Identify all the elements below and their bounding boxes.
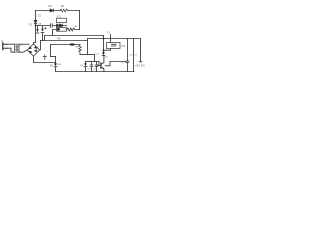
plus sign — [44, 27, 46, 29]
wire mid rail y25.5 — [36, 25, 67, 27]
wire C3 down — [42, 33, 44, 41]
svg-text:D3: D3 — [80, 65, 84, 67]
resistor R1 zigzag — [60, 9, 68, 12]
resistor R2 zigzag — [66, 28, 80, 31]
capacitor C4 branch — [90, 62, 93, 72]
test point TP1 tick — [110, 35, 112, 39]
wire x103.5 drop — [103, 36, 105, 51]
svg-text:C3: C3 — [88, 69, 92, 71]
ground rail y71 — [56, 71, 135, 73]
output terminal — [139, 39, 142, 62]
wire branch bus y61 — [86, 61, 100, 63]
wire T1 secondary top — [18, 43, 29, 45]
wire x87.5 drop — [87, 39, 89, 55]
wire T1 secondary bottom — [18, 50, 26, 52]
wire box top pin — [110, 39, 112, 43]
diode D4 — [60, 24, 63, 27]
svg-text:C6: C6 — [130, 54, 134, 56]
fuse F1 inline dash — [70, 43, 75, 45]
wire right drop x79 — [79, 11, 81, 30]
diode D2 — [34, 20, 37, 23]
transformer T1 — [14, 44, 15, 52]
wire x35 to junction — [35, 24, 37, 43]
wire left drop x35 to node — [35, 18, 37, 20]
wire top rail y10 — [36, 10, 80, 12]
svg-text:R1: R1 — [61, 4, 65, 8]
svg-text:D7: D7 — [97, 54, 101, 56]
connector J1 — [2, 43, 4, 50]
svg-text:S1: S1 — [38, 14, 42, 18]
wire drop to bridge right — [40, 41, 42, 50]
svg-text:s: s — [47, 51, 49, 53]
capacitor C3 arrow — [42, 26, 44, 29]
svg-text:IC1: IC1 — [57, 15, 62, 19]
wire base link — [97, 62, 100, 66]
wire drop x50 — [50, 45, 52, 57]
diode D5 on x57 — [55, 57, 57, 64]
capacitor C2 arrow — [37, 26, 39, 29]
capacitor C1 inline — [51, 24, 53, 27]
crystal X1 box — [107, 43, 121, 49]
wire J1 bottom jog — [7, 48, 15, 52]
wire bus y40 — [41, 40, 88, 42]
svg-text:R6: R6 — [57, 36, 61, 40]
zener D6 branch — [85, 62, 87, 64]
svg-text:+5V DC: +5V DC — [135, 64, 145, 68]
wire drop x44 — [44, 36, 46, 41]
bridge rectifier B1 — [27, 44, 39, 56]
node junction x35 y25.5 — [35, 25, 37, 27]
capacitor C6 column — [126, 39, 129, 72]
IC U2 box — [57, 27, 67, 31]
wire bus y35.5 — [45, 35, 104, 37]
svg-text:R2: R2 — [75, 26, 79, 28]
wire gnd bus y62 — [34, 62, 56, 64]
svg-text:5V6: 5V6 — [57, 64, 62, 66]
svg-text:Q1: Q1 — [105, 56, 109, 58]
wire J1 top — [7, 43, 15, 45]
node x103.5 y50 — [103, 49, 105, 51]
wire left drop x35 upper — [35, 11, 37, 15]
svg-text:Y1: Y1 — [107, 30, 111, 34]
wire y54.5 link — [80, 54, 95, 56]
wire x94 drop — [94, 55, 96, 62]
svg-text:R8: R8 — [75, 47, 79, 49]
node x103.5 y38 — [103, 38, 105, 40]
svg-text:IC2: IC2 — [121, 44, 126, 48]
IC U1 box — [57, 18, 67, 22]
wire y56.5 — [51, 56, 56, 58]
svg-text:D2: D2 — [29, 22, 33, 26]
transistor Q1 — [100, 63, 102, 68]
wire bus y44.5 — [51, 44, 81, 46]
wire bridge bottom drop — [33, 56, 35, 63]
svg-text:D4: D4 — [50, 64, 54, 67]
switch S1 — [34, 14, 37, 18]
capacitor C5 branch — [95, 62, 98, 72]
wire box bottom pin — [104, 49, 111, 51]
svg-text:C7: C7 — [134, 54, 138, 56]
diode D7 — [103, 50, 105, 52]
capacitor C7 column — [133, 39, 135, 72]
node plus mark — [43, 55, 46, 60]
diode D3 — [57, 24, 60, 27]
resistor R3 vertical zigzag — [79, 45, 82, 55]
diode D1 — [50, 9, 54, 12]
svg-text:J1: J1 — [1, 40, 4, 43]
svg-text:D1: D1 — [48, 4, 52, 8]
wire hv bus y38 — [88, 38, 141, 40]
wire emitter jog to C6 — [105, 62, 126, 66]
wire bridge top — [34, 43, 36, 45]
wire box2 left stub — [53, 30, 57, 36]
